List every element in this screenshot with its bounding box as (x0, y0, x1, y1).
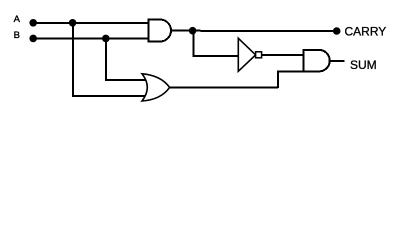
inverter U2 bubble (256, 52, 262, 58)
junction after U1 (189, 27, 197, 35)
wire A branch vertical (72, 23, 74, 96)
node CARRY output terminal (333, 27, 341, 35)
AND gate U1 (149, 20, 172, 42)
wire branch vertical to inverter (192, 31, 194, 57)
svg-text:SUM: SUM (350, 58, 377, 72)
wire U1 output to CARRY (171, 30, 334, 32)
svg-text:B: B (14, 30, 20, 41)
wire B branch vertical (105, 38, 107, 79)
AND gate U4 (304, 50, 330, 72)
wire OR output (170, 86, 278, 88)
wire A branch to OR gate lower input (72, 95, 146, 97)
svg-text:A: A (14, 14, 21, 25)
node B input terminal (29, 35, 37, 43)
wire B to AND gate U1 (33, 37, 149, 39)
wire A to AND gate U1 (33, 22, 149, 24)
wire B branch to OR gate upper input (105, 79, 146, 81)
wire inverter output to AND gate U4 (262, 54, 304, 56)
inverter U2 triangle (238, 38, 255, 71)
junction on wire A (69, 19, 77, 27)
wire to AND gate U4 lower input (277, 71, 304, 73)
node A input terminal (29, 19, 37, 27)
wire U4 output SUM (330, 60, 345, 62)
svg-text:CARRY: CARRY (345, 24, 387, 38)
junction on wire B (102, 35, 110, 43)
wire riser to U4 lower input (277, 72, 279, 89)
OR gate U3 (142, 74, 170, 101)
wire to inverter input (192, 55, 238, 57)
